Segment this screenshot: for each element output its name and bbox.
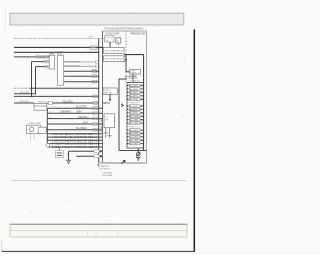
stub coil pin1 xyxy=(32,61,45,63)
wire row 124 xyxy=(47,123,102,125)
terminal label row113 xyxy=(93,112,98,115)
legend pointer arrow xyxy=(121,160,125,163)
compartment box bottom emphasis xyxy=(99,162,147,164)
stub row103 inside xyxy=(103,102,111,104)
pin row y88.9 xyxy=(127,88,143,91)
wire SB1 down xyxy=(109,42,111,48)
wire hot-at-all-times feed xyxy=(14,38,105,40)
svg-text:7: 7 xyxy=(50,122,51,124)
pin row y99.2 xyxy=(127,98,143,101)
svg-text:G101 CASE: G101 CASE xyxy=(102,174,113,177)
wire tach crossing (dashed lead-in) xyxy=(14,87,30,89)
vertical wire coil neg to row96 xyxy=(31,62,33,97)
wire coil negative branch xyxy=(14,93,36,95)
coil pin label 2 xyxy=(44,60,48,62)
wire row 137 xyxy=(47,136,102,138)
svg-text:MAIN RLY: MAIN RLY xyxy=(104,91,114,94)
LB2 tail wire 1 xyxy=(105,128,107,138)
svg-text:A3 GRN: A3 GRN xyxy=(130,91,138,94)
legend down arrow xyxy=(97,164,99,167)
svg-text:BLU/RED: BLU/RED xyxy=(76,127,87,130)
pin row y116.3 xyxy=(127,115,143,118)
junction dot row96/vert xyxy=(31,96,32,97)
svg-text:4 BLU/WHT■YEL INJECTOR RED 15: 4 BLU/WHT■YEL INJECTOR RED 15 xyxy=(52,136,98,139)
svg-text:A14 GRN: A14 GRN xyxy=(130,129,139,132)
wire row 118 xyxy=(47,118,102,120)
svg-text:2 BLK/WHT■GRN INJECTOR RED 14: 2 BLK/WHT■GRN INJECTOR RED 14 xyxy=(52,133,98,136)
wire sensor ground row xyxy=(69,150,101,152)
coil pin label 1 xyxy=(44,56,48,58)
svg-text:WHT: WHT xyxy=(89,37,94,39)
ECM connector box xyxy=(127,83,143,149)
TDC end label xyxy=(95,65,98,67)
pin row y95.8 xyxy=(127,95,143,98)
RB2 bracket connector xyxy=(124,56,126,61)
page edge artifact top-left xyxy=(5,8,7,30)
svg-text:A15 GRN: A15 GRN xyxy=(130,132,139,135)
LB2 cross tick 2 xyxy=(107,135,112,137)
terminal label row81 xyxy=(92,80,97,83)
pin row y136.8 xyxy=(127,136,143,139)
ground drop wire G101 xyxy=(68,151,70,160)
CKP sensor wire 2 xyxy=(64,75,99,77)
svg-text:A8 GRN: A8 GRN xyxy=(130,108,138,111)
wire label coil feed b xyxy=(41,56,44,58)
wire row 143.6 xyxy=(47,143,102,145)
ignition coil connector tab xyxy=(50,53,53,55)
compartment box left edge emphasis xyxy=(102,31,104,163)
wire row 147 xyxy=(47,146,102,148)
fuse block SB1 xyxy=(105,36,115,42)
bus junction dot 3 xyxy=(98,52,99,53)
pin row y106.0 xyxy=(127,105,143,108)
pump feed stub xyxy=(126,71,130,73)
coil pin label 3 xyxy=(44,65,48,67)
svg-text:WHT/BLU: WHT/BLU xyxy=(20,101,30,103)
ECM/PCM outer compartment box xyxy=(103,31,147,163)
wire shield ground row xyxy=(76,155,101,157)
pump auxiliary box xyxy=(38,127,46,133)
page edge artifact bottom-left xyxy=(1,240,3,251)
terminal label row47 xyxy=(90,46,97,49)
svg-text:PASSENGER COMPT: PASSENGER COMPT xyxy=(131,33,147,36)
terminal label row108 xyxy=(93,107,98,110)
svg-text:GRN: GRN xyxy=(76,111,82,114)
ground bars G102 xyxy=(136,157,140,159)
terminal label row71 xyxy=(92,70,97,73)
pin row y133.4 xyxy=(127,132,143,135)
svg-text:8 YEL/WHT■BLU INJECTOR RED 17: 8 YEL/WHT■BLU INJECTOR RED 17 xyxy=(52,143,98,146)
page border bottom xyxy=(2,250,195,252)
wire ignition feed xyxy=(14,46,104,48)
svg-text:A11 GRN: A11 GRN xyxy=(130,119,139,122)
fuse element symbol xyxy=(116,38,121,43)
ground run bottom xyxy=(119,150,147,152)
LB2 cross tick 1 xyxy=(104,132,109,134)
bus to sensor rows xyxy=(46,108,48,147)
svg-text:6 GRN/WHT■BRN INJECTOR RED 16: 6 GRN/WHT■BRN INJECTOR RED 16 xyxy=(52,139,98,142)
footer separator rule xyxy=(12,180,187,182)
fuse symbol stub xyxy=(117,43,119,45)
arrow into ECM row156 xyxy=(100,155,103,158)
terminal label row103 xyxy=(93,102,98,105)
svg-text:A18 GRN: A18 GRN xyxy=(130,143,139,146)
terminal label row96 xyxy=(93,95,98,98)
fuel pump relay box PB xyxy=(130,69,141,74)
svg-text:A10 GRN: A10 GRN xyxy=(130,115,139,118)
ground connector ring G102 xyxy=(137,152,141,156)
svg-text:RED/BLU: RED/BLU xyxy=(78,116,89,119)
terminal label row118 xyxy=(93,117,98,120)
pump ground dash 1 xyxy=(30,134,32,142)
stub coil pin2 xyxy=(36,66,45,68)
wire fuse output to ECM xyxy=(47,102,99,104)
svg-text:GRN/WHT: GRN/WHT xyxy=(60,111,72,114)
wire row 140.3 xyxy=(47,139,102,141)
CKP sensor wire xyxy=(64,70,99,72)
relay output wire across xyxy=(124,54,144,56)
wire ignition pulse xyxy=(14,95,99,97)
TDC wire label smudge xyxy=(64,65,80,67)
relay drop wire to pump xyxy=(125,55,127,72)
terminal label row124 xyxy=(93,123,98,126)
junction dot ground run xyxy=(138,150,140,152)
pin row y119.7 xyxy=(127,118,143,121)
svg-text:A12 GRN: A12 GRN xyxy=(130,122,139,125)
arrow into ECM row151 xyxy=(100,150,103,153)
pin row y85.5 xyxy=(127,84,143,87)
svg-text:INJECTOR: INJECTOR xyxy=(130,127,140,129)
ECM ground stub xyxy=(137,148,139,152)
sensor box LB1 xyxy=(103,88,117,94)
relay box RB2 xyxy=(104,56,125,62)
footer table bar xyxy=(10,224,187,237)
page border right xyxy=(193,30,195,252)
svg-text:YEL/GRN: YEL/GRN xyxy=(62,100,73,103)
junction dot relay wire xyxy=(125,54,127,56)
arrow on drop wire xyxy=(125,59,127,62)
terminal label row76 xyxy=(92,75,97,78)
svg-text:2: 2 xyxy=(50,112,51,114)
fuel pump box xyxy=(27,125,41,133)
CYP wire label smudge xyxy=(64,61,80,63)
relay box RB1 xyxy=(104,48,125,54)
wire row 129.5 xyxy=(46,129,102,131)
svg-text:A9 GRN: A9 GRN xyxy=(130,112,138,115)
svg-text:TYPICAL ENGINE PERFORMANCE WIR: TYPICAL ENGINE PERFORMANCE WIRING xyxy=(104,26,144,30)
wire label coil feed a xyxy=(36,56,40,58)
svg-text:A17 GRN: A17 GRN xyxy=(130,139,139,142)
wire row 113 xyxy=(47,112,102,114)
wire starter signal xyxy=(14,51,99,53)
PB sub stub wire xyxy=(124,76,130,78)
connector bubble at bus end xyxy=(46,143,50,147)
mid-run wire color labels xyxy=(50,70,97,130)
bus junction dot 1 xyxy=(98,47,99,48)
LB1 drop arrow xyxy=(109,99,111,102)
ground arrow G102 xyxy=(136,152,140,156)
pin row y109.4 xyxy=(127,108,143,111)
bus junction dot 2 xyxy=(98,88,99,89)
pin row y143.6 xyxy=(127,142,143,145)
junction dot row103 xyxy=(105,102,106,103)
svg-text:FUSE 31: FUSE 31 xyxy=(38,101,47,103)
terminal label row156 xyxy=(94,155,99,158)
terminal smudges xyxy=(91,47,99,157)
svg-text:FUEL PUMP RELAY: FUEL PUMP RELAY xyxy=(105,49,124,52)
svg-text:9 RED/WHT■GRY INJECTOR RED 18: 9 RED/WHT■GRY INJECTOR RED 18 xyxy=(52,146,98,149)
header title bar xyxy=(10,13,184,25)
pump motor circle xyxy=(29,127,34,132)
terminal label row129 xyxy=(93,128,98,131)
connector sub box xyxy=(56,151,64,158)
bus dots sensors xyxy=(98,71,99,72)
svg-text:INJECTOR: INJECTOR xyxy=(130,103,140,105)
pin row y123.1 xyxy=(127,122,143,125)
svg-text:A5 GRN: A5 GRN xyxy=(130,98,138,101)
svg-text:A4 GRN: A4 GRN xyxy=(130,95,138,98)
CYP end label xyxy=(95,61,98,63)
pump ground dash 2 xyxy=(34,134,36,140)
long ground wire top corner xyxy=(119,78,127,80)
distributor box xyxy=(58,55,64,85)
svg-text:A16 GRN: A16 GRN xyxy=(130,136,139,139)
svg-text:FUEL PUMP RELAY: FUEL PUMP RELAY xyxy=(105,58,124,61)
relay wire right drop xyxy=(143,55,145,151)
ground dot G101 xyxy=(68,153,70,155)
pump to ECM wire xyxy=(132,74,134,83)
wire row 133.8 xyxy=(47,133,102,135)
fuse output label box xyxy=(48,101,52,104)
svg-text:ENGINE COMPT: ENGINE COMPT xyxy=(105,34,120,36)
pin row y92.3 xyxy=(127,91,143,94)
pin row y112.9 xyxy=(127,112,143,115)
LB2 tail wire 2 xyxy=(109,128,111,138)
svg-text:A7 GRN: A7 GRN xyxy=(130,105,138,108)
pin number column marks xyxy=(101,120,102,133)
relay wire right drop (over box edge) xyxy=(143,55,145,151)
pin row y140.2 xyxy=(127,139,143,142)
connector box LB2 xyxy=(104,114,115,128)
compartment divider (dashed) xyxy=(125,31,127,82)
wire fuse feed xyxy=(14,102,34,104)
ignition coil box xyxy=(49,55,54,69)
wire to ignition coil xyxy=(14,56,49,58)
fuse box xyxy=(34,104,47,111)
svg-text:5: 5 xyxy=(50,117,51,119)
fuse internal wire xyxy=(34,105,47,107)
PB sub label xyxy=(130,76,137,79)
connector drop stub xyxy=(59,147,61,151)
CYP sensor wire (light) xyxy=(64,61,99,63)
svg-text:DLC: DLC xyxy=(105,117,109,119)
long ground wire vertical xyxy=(118,79,120,151)
TDC sensor wire (light) xyxy=(64,65,99,67)
sub box smudge xyxy=(57,152,63,153)
svg-text:PUMP: PUMP xyxy=(130,73,136,75)
svg-text:BLK/YEL: BLK/YEL xyxy=(20,92,30,94)
junction dot row93/vert xyxy=(35,93,36,94)
LB1 drop wire xyxy=(109,94,111,100)
svg-text:2 ECM/PCM: 2 ECM/PCM xyxy=(99,168,110,170)
svg-text:A2 GRN: A2 GRN xyxy=(130,88,138,91)
CKP sensor wire 3 xyxy=(64,81,99,83)
svg-text:A1 GRN: A1 GRN xyxy=(130,84,138,87)
svg-text:BLU/GRN: BLU/GRN xyxy=(76,106,87,109)
wire row 108 xyxy=(47,107,102,109)
wire tach crossing xyxy=(30,87,99,89)
scan speckle xyxy=(10,12,192,248)
ground symbol G101 xyxy=(66,160,71,163)
vertical wire coil pulse to row93 xyxy=(35,67,37,94)
pin row y130.0 xyxy=(127,129,143,132)
service check mark xyxy=(121,104,124,107)
svg-text:VNT: VNT xyxy=(83,121,88,124)
terminal label row151 xyxy=(94,150,99,153)
